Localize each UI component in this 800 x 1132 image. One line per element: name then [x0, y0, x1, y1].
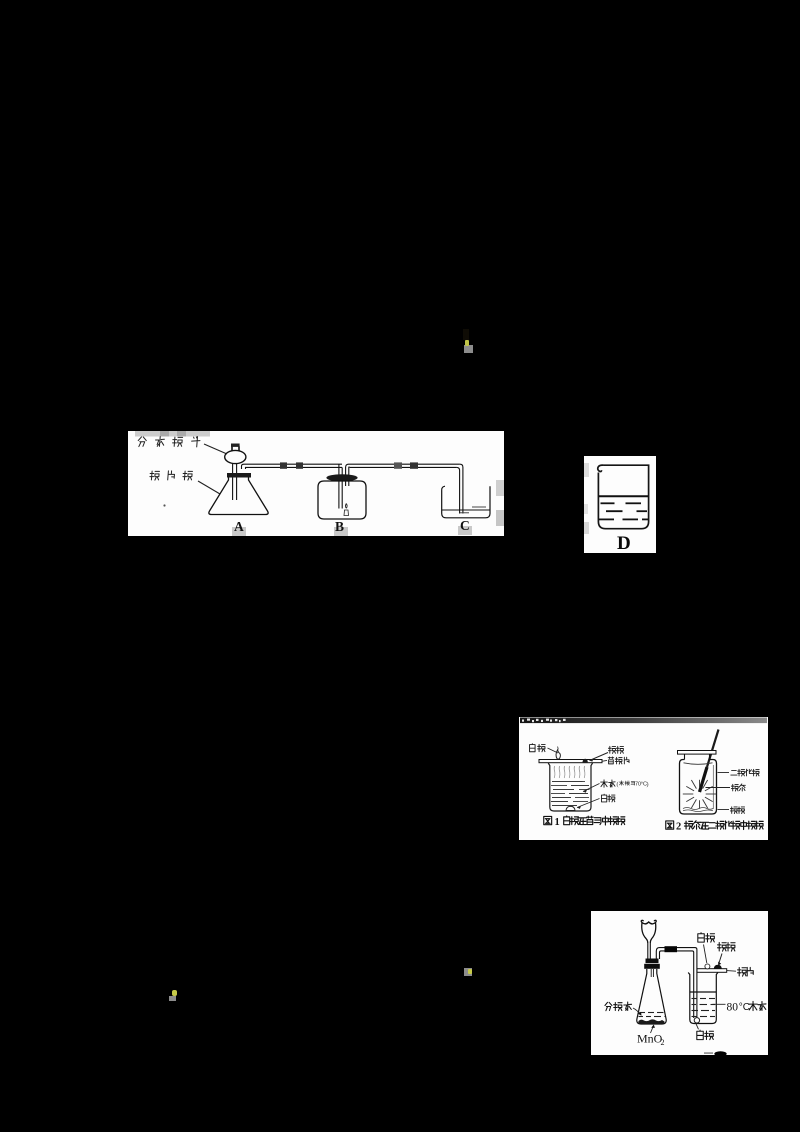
- svg-text:°C: °C: [739, 1002, 750, 1013]
- svg-text:C: C: [460, 518, 470, 533]
- svg-text:2: 2: [676, 822, 681, 833]
- svg-text:1: 1: [555, 817, 560, 828]
- svg-text:2: 2: [661, 1038, 665, 1047]
- svg-text:B: B: [335, 519, 344, 534]
- svg-text:(: (: [617, 781, 619, 788]
- svg-text:80: 80: [727, 1002, 739, 1014]
- svg-text:A: A: [234, 519, 244, 534]
- svg-text:D: D: [617, 533, 631, 553]
- svg-text:MnO: MnO: [637, 1032, 663, 1046]
- svg-text:): ): [647, 781, 649, 788]
